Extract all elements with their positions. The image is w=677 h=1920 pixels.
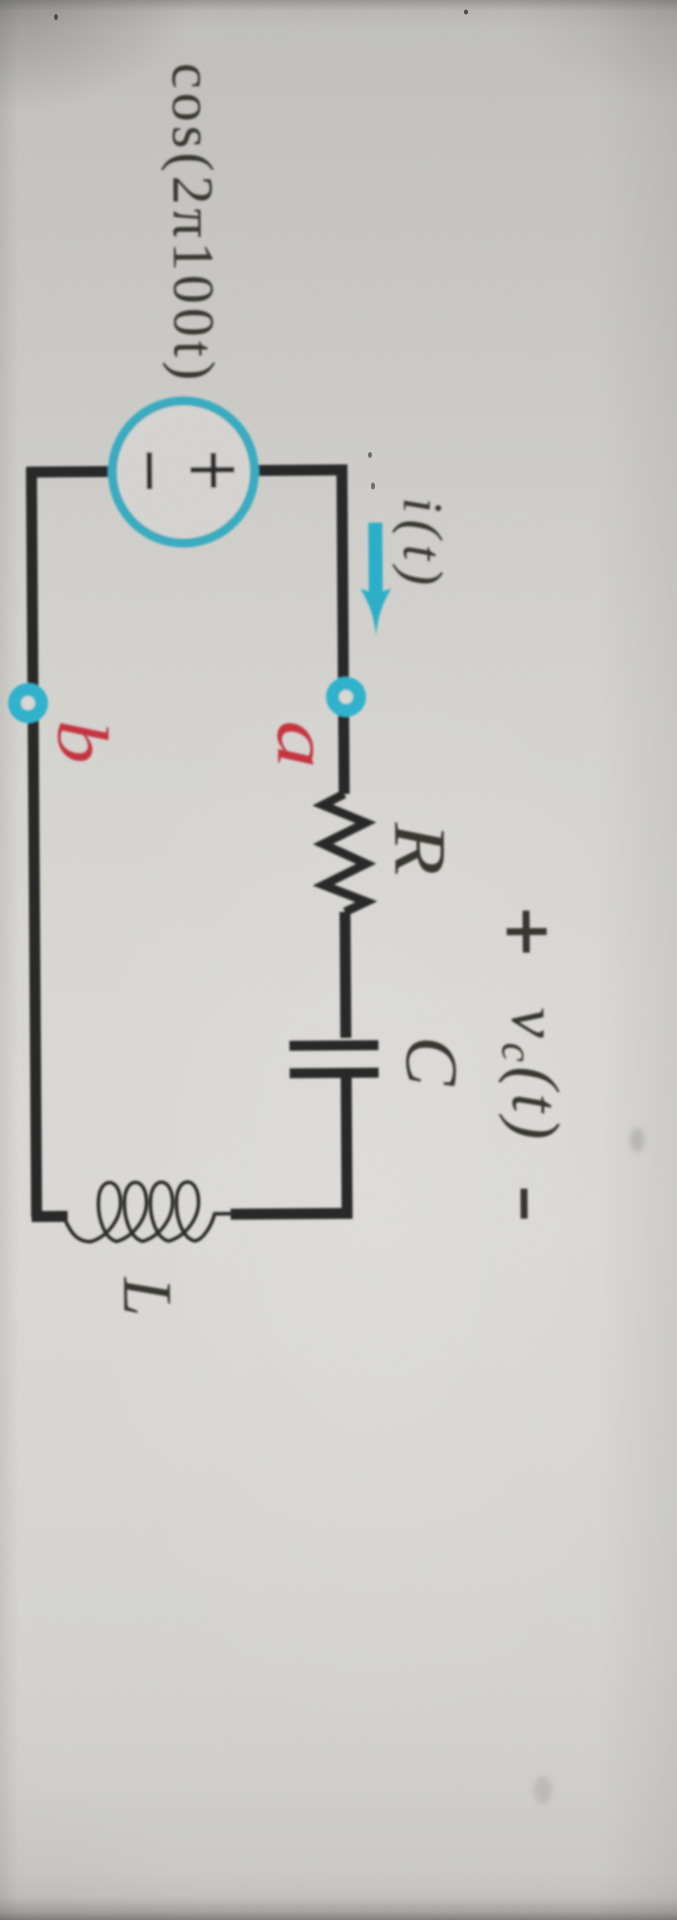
svg-text:L: L [108,1276,185,1316]
svg-text:C: C [389,1036,471,1088]
svg-text:b: b [42,719,122,763]
svg-text:cos(2π100t): cos(2π100t) [160,63,227,385]
svg-text:R: R [378,821,460,876]
svg-text:vc(t): vc(t) [492,1007,574,1144]
svg-text:i(t): i(t) [391,497,454,592]
svg-text:a: a [262,720,344,769]
